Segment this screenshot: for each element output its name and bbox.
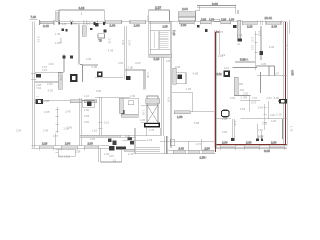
interior wall x79.5-81.5 vertical xyxy=(80,98,82,146)
corridor hatched bar y111 xyxy=(174,111,214,120)
stair labels xyxy=(154,30,177,61)
elevator machine black rect xyxy=(145,123,160,127)
black marks cluster upper-center xyxy=(90,23,99,30)
WC fixtures bottom-left xyxy=(108,139,117,146)
interior: left apt wall y82 xyxy=(35,81,60,83)
upper-center unit wall x79.5 xyxy=(78,25,98,83)
svg-text:7.10: 7.10 xyxy=(252,96,258,100)
svg-text:1.05: 1.05 xyxy=(62,23,67,26)
right apartment: dim line x256 xyxy=(251,31,258,70)
svg-text:5.13: 5.13 xyxy=(37,37,41,43)
svg-text:2.40: 2.40 xyxy=(43,24,49,28)
svg-text:1.60: 1.60 xyxy=(84,108,90,112)
svg-text:2.03: 2.03 xyxy=(230,96,236,100)
svg-text:4.78: 4.78 xyxy=(167,97,170,102)
svg-text:2.05: 2.05 xyxy=(44,110,50,114)
svg-text:2.20: 2.20 xyxy=(258,128,264,132)
tick marks at window bar ends along top wall xyxy=(60,20,281,25)
svg-text:6.98: 6.98 xyxy=(194,121,200,125)
corner pier top-right going down xyxy=(237,20,242,41)
small vent shaft central xyxy=(126,76,130,80)
wall x144.5 vertical xyxy=(144,70,146,90)
porch outline below bottom-left wall xyxy=(56,130,80,156)
wall y70 x124-145 xyxy=(125,69,146,71)
red heating riser vertical xyxy=(214,32,216,152)
svg-text:Ж: Ж xyxy=(238,42,241,46)
svg-text:2.30: 2.30 xyxy=(146,73,150,79)
entry side wall bar with jog xyxy=(124,149,135,156)
stairwell right wall (continues as corridor wall) xyxy=(170,21,172,148)
svg-text:7.40: 7.40 xyxy=(31,15,37,19)
svg-text:2.10: 2.10 xyxy=(276,112,282,116)
svg-text:2.05: 2.05 xyxy=(274,96,280,100)
elevator dim ticks left xyxy=(141,105,147,123)
right apt mid walls and dims xyxy=(240,101,269,130)
left apt interior wall y100 xyxy=(43,99,70,101)
svg-text:2.90: 2.90 xyxy=(271,141,277,145)
dim ticks below bottom wall xyxy=(39,148,284,150)
black blobs at terrace wall xyxy=(197,25,237,28)
svg-text:16.1: 16.1 xyxy=(285,44,289,50)
svg-text:0.90: 0.90 xyxy=(96,89,102,93)
svg-text:2.90: 2.90 xyxy=(246,141,252,145)
svg-text:2.08: 2.08 xyxy=(201,17,207,21)
svg-text:2.03: 2.03 xyxy=(47,82,53,86)
svg-text:0.15: 0.15 xyxy=(109,155,114,158)
svg-text:4.72: 4.72 xyxy=(196,143,201,146)
svg-text:4.18: 4.18 xyxy=(79,6,85,10)
dark entry threshold cluster xyxy=(109,146,126,150)
top-left dim label 7.40 xyxy=(30,15,38,19)
svg-text:2.10: 2.10 xyxy=(267,96,273,100)
svg-text:3.18: 3.18 xyxy=(240,107,246,111)
svg-text:0.98: 0.98 xyxy=(175,65,181,69)
black door jambs on bay wall xyxy=(58,22,105,25)
svg-text:1.05: 1.05 xyxy=(186,87,192,91)
svg-text:2.60: 2.60 xyxy=(84,120,90,124)
black marks below bay wall left xyxy=(62,29,68,32)
svg-text:3.03: 3.03 xyxy=(243,57,249,61)
red tick at right wall shaft xyxy=(278,100,284,102)
svg-text:0.70: 0.70 xyxy=(258,134,264,138)
svg-text:4.08: 4.08 xyxy=(193,72,199,76)
stub x269 in right apt xyxy=(268,66,270,76)
right apt wall x282.5 xyxy=(282,119,284,139)
elevator shaft with X-brace xyxy=(147,96,158,123)
svg-text:1.05: 1.05 xyxy=(166,60,171,63)
right apt wall y62 xyxy=(233,58,258,68)
svg-text:1.05: 1.05 xyxy=(125,134,131,138)
svg-text:1.90: 1.90 xyxy=(222,117,228,121)
door blob on left wall xyxy=(36,74,41,77)
small white rect (kitchen unit) xyxy=(98,29,107,42)
svg-text:3.10: 3.10 xyxy=(108,38,112,44)
svg-text:2.68: 2.68 xyxy=(202,148,208,152)
svg-text:10.41: 10.41 xyxy=(265,16,273,20)
extra scattered dim texts xyxy=(36,32,280,159)
svg-text:2.04: 2.04 xyxy=(182,7,188,11)
svg-text:2.06: 2.06 xyxy=(128,40,132,46)
svg-text:0.70: 0.70 xyxy=(251,101,257,105)
svg-text:1.05: 1.05 xyxy=(163,25,169,29)
wall y77.3 x95-123 xyxy=(95,76,123,78)
entrance steps inside bay xyxy=(136,147,160,151)
WC pan right apt xyxy=(222,110,230,117)
hatched band above elevator xyxy=(146,99,160,103)
window bar W1 xyxy=(40,20,55,28)
svg-text:2.90: 2.90 xyxy=(110,23,116,27)
stair flight treads xyxy=(154,31,169,49)
svg-text:2.40: 2.40 xyxy=(272,25,278,29)
svg-text:1.10: 1.10 xyxy=(121,40,125,46)
svg-text:2.07: 2.07 xyxy=(218,30,224,34)
vent shaft black (left apt) xyxy=(70,74,77,82)
svg-text:2.10: 2.10 xyxy=(128,152,134,156)
svg-text:4.05: 4.05 xyxy=(261,62,267,66)
porch inner verticals xyxy=(188,139,201,150)
svg-text:4.70: 4.70 xyxy=(233,121,237,127)
bay right wall double xyxy=(165,136,167,154)
svg-text:3.03: 3.03 xyxy=(48,89,54,93)
svg-text:1.48: 1.48 xyxy=(36,96,40,102)
svg-text:1.10: 1.10 xyxy=(290,126,294,132)
svg-text:6.00: 6.00 xyxy=(264,149,270,153)
wall x169-199 with window xyxy=(163,21,200,29)
svg-text:1.58: 1.58 xyxy=(75,150,81,154)
svg-text:7.10: 7.10 xyxy=(172,30,176,36)
red stub connector xyxy=(215,31,219,33)
svg-text:2.06: 2.06 xyxy=(221,17,227,21)
svg-text:2.03: 2.03 xyxy=(86,57,92,61)
WC fixtures cluster 2 xyxy=(128,138,134,145)
red radiator labels right apt xyxy=(239,82,279,100)
svg-text:2.03: 2.03 xyxy=(84,114,90,118)
door jamb marks y56 xyxy=(63,56,73,59)
central bathroom box xyxy=(119,98,138,117)
svg-text:2.30: 2.30 xyxy=(59,75,63,81)
svg-text:1.78: 1.78 xyxy=(149,128,155,132)
svg-text:2.30: 2.30 xyxy=(130,94,136,98)
svg-text:1.06: 1.06 xyxy=(209,17,215,21)
svg-text:4.20: 4.20 xyxy=(270,113,276,117)
svg-text:2.10: 2.10 xyxy=(181,23,187,27)
black feet blobs lower right apt xyxy=(231,138,263,141)
svg-text:7.62: 7.62 xyxy=(36,86,42,90)
stair landings xyxy=(150,31,170,49)
interior: left apt wall x64 xyxy=(63,55,65,73)
svg-text:7.10: 7.10 xyxy=(42,68,48,72)
svg-text:3.03: 3.03 xyxy=(269,45,275,49)
svg-text:2 ЛМ: 2 ЛМ xyxy=(241,96,248,100)
interior: hatched partition x58-62 xyxy=(58,73,62,89)
right apt door stubs x257.6 x261.7 xyxy=(258,124,264,140)
interior wall x100 xyxy=(98,97,102,135)
svg-text:2.40: 2.40 xyxy=(258,106,264,110)
wall pier at top-left bay xyxy=(56,11,60,22)
bottom bay entrance block xyxy=(135,128,167,154)
terrace edge double line xyxy=(197,2,238,14)
corridor bottom wall y140 xyxy=(123,140,215,141)
corridor wall right of elevator xyxy=(161,57,163,136)
svg-text:3.88: 3.88 xyxy=(44,99,50,103)
hatched bar below top wall (center) xyxy=(82,26,86,36)
corridor wall y135.4-137.2 xyxy=(80,135,135,137)
svg-text:2.12: 2.12 xyxy=(251,45,254,50)
terrace wall band with two windows xyxy=(200,17,238,23)
svg-text:2.90: 2.90 xyxy=(222,141,228,145)
porch wall y150-153.5 with windows xyxy=(167,146,216,159)
svg-text:4.20: 4.20 xyxy=(271,119,277,123)
right apt wall y118.7 xyxy=(216,118,287,120)
black column on left wall xyxy=(36,99,44,104)
svg-text:4.08: 4.08 xyxy=(237,34,243,38)
svg-text:2.03: 2.03 xyxy=(16,129,22,133)
svg-text:1Ж: 1Ж xyxy=(240,88,245,92)
svg-text:2.20: 2.20 xyxy=(154,57,160,61)
vent shaft at right wall xyxy=(279,99,287,104)
bottom-right exterior wall with windows xyxy=(216,141,288,154)
svg-text:2.90: 2.90 xyxy=(134,23,140,27)
corridor wall y92.5 xyxy=(172,93,193,112)
svg-text:2.20: 2.20 xyxy=(262,122,268,126)
svg-text:0.70: 0.70 xyxy=(251,37,254,42)
left apt bathroom box xyxy=(82,101,94,108)
svg-text:2.48: 2.48 xyxy=(179,146,185,150)
svg-text:1.40: 1.40 xyxy=(55,32,61,36)
svg-text:3.30: 3.30 xyxy=(146,16,150,22)
svg-text:2.90: 2.90 xyxy=(65,142,71,146)
small fixture rect central bathroom xyxy=(128,101,134,105)
black fixture in central bathroom xyxy=(121,110,125,116)
right apt vent shaft xyxy=(217,70,231,77)
top-right wing wall with two windows xyxy=(241,16,287,28)
svg-text:1.58: 1.58 xyxy=(177,115,183,119)
svg-text:2.03: 2.03 xyxy=(147,138,153,142)
svg-text:8.60: 8.60 xyxy=(212,2,218,6)
svg-text:4.08: 4.08 xyxy=(291,70,295,76)
svg-text:2.08: 2.08 xyxy=(128,66,134,70)
dim texts above bottom-left wall xyxy=(16,126,98,133)
svg-text:2.12: 2.12 xyxy=(217,72,223,76)
red riser line in right wall xyxy=(284,22,286,145)
dim chain x57 xyxy=(56,107,59,133)
vent shaft (center pair) xyxy=(97,71,103,77)
balcony double bar right of stair bay xyxy=(178,5,200,21)
svg-text:1.10: 1.10 xyxy=(92,129,98,133)
corridor shaft box xyxy=(173,68,186,84)
svg-text:2.18: 2.18 xyxy=(247,25,253,29)
svg-text:2.40 3: 2.40 3 xyxy=(84,23,92,26)
svg-text:2.60: 2.60 xyxy=(90,137,96,141)
right apt hatched partition xyxy=(234,77,251,111)
bay wall band: thin double line with labels xyxy=(59,21,104,26)
right apt wall x233.8 xyxy=(233,119,235,139)
svg-text:2.90: 2.90 xyxy=(88,142,94,146)
svg-text:1.58: 1.58 xyxy=(202,155,208,159)
svg-text:2.9: 2.9 xyxy=(222,53,226,57)
right apt wall y66 x256-274 xyxy=(256,66,287,76)
stairwell bottom wall hatched xyxy=(149,54,172,57)
svg-text:4.07: 4.07 xyxy=(274,72,280,76)
top-left bay outline xyxy=(59,6,104,21)
svg-text:1.05: 1.05 xyxy=(140,118,146,122)
svg-text:1.05: 1.05 xyxy=(142,110,145,115)
svg-text:2.10: 2.10 xyxy=(104,121,110,125)
bottom-left exterior wall with windows xyxy=(32,142,110,149)
svg-text:2.90: 2.90 xyxy=(67,126,73,130)
left wall tick marks xyxy=(31,73,37,79)
svg-text:2.40: 2.40 xyxy=(43,129,49,133)
stairwell left wall xyxy=(149,21,151,57)
left exterior wall xyxy=(33,22,35,148)
svg-text:2.07: 2.07 xyxy=(155,6,161,10)
black mark near terrace left xyxy=(205,29,208,32)
svg-text:2.03: 2.03 xyxy=(49,62,55,66)
interior: left apt wall y72 xyxy=(35,71,64,73)
svg-text:2.10: 2.10 xyxy=(42,142,48,146)
svg-text:1.5: 1.5 xyxy=(113,159,117,162)
svg-text:4.03: 4.03 xyxy=(118,61,124,65)
entrance porch box below wall xyxy=(99,148,122,162)
top wall x104-149 with two windows xyxy=(104,20,148,28)
shaft rect in porch area xyxy=(171,139,175,146)
red heating main horizontal xyxy=(215,144,286,146)
right apt wall x261 xyxy=(257,26,263,93)
svg-text:4.03: 4.03 xyxy=(108,49,114,53)
svg-text:2.08: 2.08 xyxy=(92,65,98,69)
corridor right wall double xyxy=(214,30,219,148)
svg-text:1.06: 1.06 xyxy=(229,17,235,21)
svg-text:2.40: 2.40 xyxy=(65,110,71,114)
stair bay outline xyxy=(149,6,170,23)
svg-text:6.03: 6.03 xyxy=(257,31,260,36)
right exterior wall double xyxy=(284,20,289,145)
misc room dim texts xyxy=(40,34,282,160)
central vertical wall x125 xyxy=(125,26,127,79)
svg-text:ТВ: ТВ xyxy=(99,39,103,43)
svg-text:2.10: 2.10 xyxy=(224,66,230,70)
svg-text:1.10: 1.10 xyxy=(84,94,90,98)
corridor wall y97-103 with hatched parts xyxy=(70,97,130,102)
rotated room dim texts xyxy=(36,37,294,132)
svg-text:2Ж: 2Ж xyxy=(239,82,244,86)
svg-text:4.03: 4.03 xyxy=(135,61,141,65)
svg-text:6.98: 6.98 xyxy=(59,38,63,44)
svg-text:2.90: 2.90 xyxy=(222,130,228,134)
